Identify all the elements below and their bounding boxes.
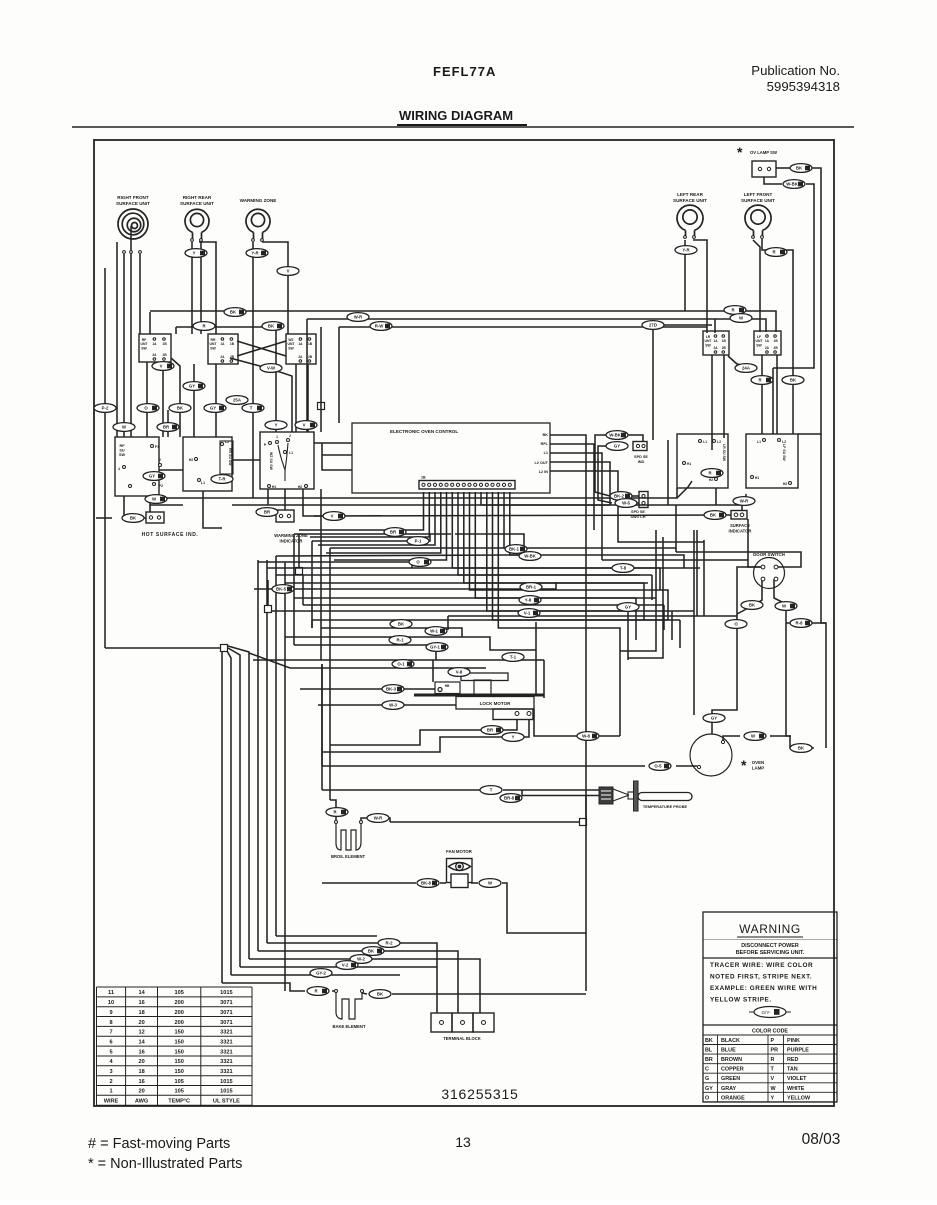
wire probe feed 2: [522, 795, 599, 797]
svg-text:*: *: [737, 144, 743, 160]
LR UNIT SW terminal 2A: [714, 351, 717, 354]
wire label Y-8 (oval): [519, 596, 541, 605]
schematic border frame: [94, 140, 834, 1106]
wire fan motor feed: [322, 882, 416, 884]
svg-text:200: 200: [175, 1020, 184, 1026]
EOC pin 8 wire: [464, 492, 644, 583]
wire label W-5 (oval): [615, 499, 637, 508]
wire spd sw lead a: [632, 495, 639, 497]
wire label V-1 (oval): [518, 609, 540, 618]
SPD SE IND terminal 1: [636, 444, 639, 447]
wire fan y548: [330, 547, 504, 549]
WZ UNIT SW terminal 1B: [308, 338, 311, 341]
wire right v4: [627, 611, 629, 660]
svg-text:16: 16: [138, 1000, 144, 1006]
svg-text:GRAY: GRAY: [721, 1086, 736, 1092]
wire fan motor out: [471, 882, 478, 884]
svg-text:OVEN: OVEN: [752, 760, 764, 765]
svg-text:8: 8: [109, 1020, 112, 1026]
svg-text:L1: L1: [289, 451, 293, 455]
wire door switch T3 diagonal: [737, 579, 762, 614]
surface unit switch RR UNIT SW: [208, 334, 238, 364]
wire RF SU SW to hot surface ind: [124, 496, 146, 518]
wire bake to right: [392, 993, 586, 995]
wire EOC L2 IN: [550, 471, 704, 542]
oven lamp terminal 1: [721, 740, 724, 743]
svg-text:W-BK: W-BK: [609, 433, 622, 438]
svg-text:3: 3: [109, 1069, 112, 1075]
tracer wire example oval G/Y: [749, 1007, 791, 1018]
wire lock motor right: [534, 709, 620, 736]
wire fan motor return: [502, 883, 586, 933]
oven lamp switch OV LAMP SW box: [752, 161, 776, 177]
wire label T-1 (oval): [502, 653, 524, 662]
wire fan y668: [249, 653, 486, 668]
svg-text:6: 6: [109, 1040, 112, 1046]
terminal block lug 1: [440, 1021, 444, 1025]
wire LR coil drop 2: [693, 240, 707, 333]
svg-text:L2: L2: [225, 440, 229, 444]
svg-text:*: *: [741, 757, 747, 773]
svg-text:W-3: W-3: [389, 703, 397, 708]
wire label Y (oval): [502, 733, 524, 742]
wire to terminal lug 3: [249, 959, 480, 1013]
svg-text:O-5: O-5: [654, 764, 662, 769]
wire lock motor return a: [330, 719, 517, 745]
wire bottom y975: [231, 974, 400, 976]
heading underline rule: [397, 124, 527, 126]
terminal block section 1: [431, 1013, 452, 1032]
svg-text:BR-8: BR-8: [504, 796, 515, 801]
color code table: [703, 1024, 837, 1026]
connector warming zone indicator: [276, 510, 294, 522]
svg-text:INDICATOR: INDICATOR: [280, 538, 303, 543]
bus drop RF: [149, 312, 151, 334]
svg-text:BK: BK: [130, 516, 137, 521]
svg-text:SURFACE UNIT: SURFACE UNIT: [673, 198, 707, 203]
connector surface indicator: [731, 511, 747, 520]
surface unit coil RR (right rear): [185, 209, 209, 239]
wire label GY-2 (oval): [310, 969, 332, 978]
svg-text:SURFACE UNIT: SURFACE UNIT: [741, 198, 775, 203]
wire right long v697: [696, 530, 698, 616]
lock motor terminal 2: [527, 712, 531, 716]
wire WZ UNIT SW to WZ SU SW a: [295, 364, 297, 432]
bus L1 upper: [150, 311, 776, 332]
svg-text:Y: Y: [512, 735, 515, 740]
svg-text:12: 12: [138, 1030, 144, 1036]
svg-text:1B: 1B: [722, 339, 727, 343]
wire fan y575: [276, 574, 640, 576]
bake element terminal 2: [361, 990, 364, 993]
svg-text:YELLOW STRIPE.: YELLOW STRIPE.: [710, 997, 772, 1004]
WZ UNIT SW terminal 2A: [299, 360, 302, 363]
EOC terminal strip: [419, 481, 515, 490]
svg-text:BK: BK: [710, 513, 717, 518]
svg-text:H1: H1: [272, 485, 276, 489]
LR UNIT SW terminal 1B: [722, 335, 725, 338]
svg-text:3071: 3071: [220, 1010, 232, 1016]
wire label V (oval): [152, 362, 174, 371]
svg-text:W-R: W-R: [740, 499, 749, 504]
wire oven lamp T1: [723, 736, 740, 740]
svg-text:T: T: [490, 788, 493, 793]
wire gauge table data: [104, 990, 240, 1104]
EOC pin 16 wire: [510, 492, 684, 568]
fan motor iris: [456, 863, 464, 871]
wire label BK (oval): [262, 322, 284, 331]
svg-text:BK-5: BK-5: [276, 587, 287, 592]
wire label O (oval): [409, 558, 431, 567]
wire label R (oval): [765, 248, 787, 257]
bus L3 upper: [339, 326, 707, 328]
wire junction: [265, 606, 272, 613]
warning title underline: [737, 936, 803, 938]
svg-text:1B: 1B: [163, 342, 168, 346]
wire bundle v x294: [293, 534, 295, 645]
wire label W-3 (oval): [382, 701, 404, 710]
wire W-R oval to surface ind: [741, 499, 743, 510]
svg-text:Y: Y: [193, 251, 196, 256]
wire right v5: [635, 598, 637, 640]
EOC pin 5 wire: [334, 492, 447, 560]
svg-text:Publication No.: Publication No.: [751, 63, 840, 78]
svg-text:RFL: RFL: [541, 442, 549, 446]
wire RR coil branch right: [199, 242, 216, 334]
LF SU SW terminal H2: [789, 482, 792, 485]
wire link door: [675, 548, 677, 552]
svg-text:18: 18: [138, 1069, 144, 1075]
wire junction: [318, 403, 325, 410]
probe connector nub: [628, 792, 634, 799]
svg-text:10: 10: [108, 1000, 114, 1006]
wire label Y (oval): [265, 421, 287, 430]
RR coil terminal 1: [191, 239, 194, 242]
svg-text:W-R: W-R: [354, 315, 363, 320]
wire RR coil drop 2: [200, 242, 202, 334]
svg-text:105: 105: [175, 1079, 184, 1085]
wire right mid v2: [667, 440, 669, 505]
selector switch WZ SU SW: [260, 432, 314, 489]
svg-text:150: 150: [175, 1059, 184, 1065]
fan motor housing: [447, 859, 473, 883]
svg-text:2B: 2B: [774, 346, 779, 350]
wire right mid v1: [652, 325, 654, 440]
WZ UNIT SW terminal 1A: [299, 338, 302, 341]
svg-text:OV LAMP SW: OV LAMP SW: [750, 150, 777, 155]
lock motor box: [456, 697, 534, 710]
svg-text:2A: 2A: [765, 346, 770, 350]
svg-text:L2: L2: [782, 440, 786, 444]
svg-text:BK: BK: [368, 949, 375, 954]
svg-text:GY: GY: [210, 406, 216, 411]
svg-text:105: 105: [175, 990, 184, 996]
wire label Y (oval): [185, 249, 207, 258]
selector switch LF SU SW: [746, 434, 798, 488]
svg-text:LR SU SW: LR SU SW: [722, 444, 726, 462]
wire OV LAMP SW to label: [776, 167, 790, 169]
svg-text:W-5: W-5: [622, 501, 630, 506]
LF UNIT SW terminal 2B: [774, 351, 777, 354]
RR SU SW terminal L1: [198, 479, 201, 482]
svg-text:2A: 2A: [220, 355, 225, 359]
svg-text:BLACK: BLACK: [721, 1038, 740, 1044]
wire bottom bake feed: [222, 983, 305, 991]
wire label BR-8 (oval): [500, 794, 522, 803]
svg-text:1015: 1015: [220, 1089, 232, 1095]
door switch body: [754, 558, 785, 589]
wire bundle v x267: [266, 560, 268, 943]
wire to door switch T1 feed: [602, 560, 762, 567]
wire LR UNIT to LR SU a: [711, 355, 713, 450]
svg-text:3071: 3071: [220, 1020, 232, 1026]
wire fan y637b: [462, 637, 536, 650]
wire fan y589: [254, 582, 556, 589]
wire label V-2 (oval): [336, 961, 358, 970]
svg-text:SW: SW: [119, 453, 126, 457]
svg-text:BK: BK: [398, 622, 405, 627]
wire fan y541: [312, 534, 430, 541]
svg-text:4: 4: [118, 467, 120, 471]
connector SPD SE SWITCH: [639, 492, 648, 508]
wire RR coil drop 1: [191, 242, 193, 334]
WZ SU SW terminal 2: [287, 439, 290, 442]
bus left mid: [176, 327, 276, 432]
svg-text:3321: 3321: [220, 1069, 232, 1075]
wire bundle v x321: [320, 489, 322, 660]
EOC pin 15 wire: [504, 492, 676, 548]
svg-text:Y-R: Y-R: [682, 248, 690, 253]
RR UNIT SW terminal 2B: [230, 360, 233, 363]
hot surface ind terminal 2: [157, 516, 160, 519]
svg-text:L1: L1: [757, 440, 761, 444]
wire lock motor return b: [322, 719, 529, 752]
terminal block lug 2: [461, 1021, 465, 1025]
svg-text:3321: 3321: [220, 1040, 232, 1046]
svg-text:WIRING DIAGRAM: WIRING DIAGRAM: [399, 108, 513, 123]
wire label T-R (oval): [211, 475, 233, 484]
wire fan y598: [294, 597, 656, 599]
RR UNIT SW terminal 2A: [221, 360, 224, 363]
svg-text:14: 14: [138, 990, 145, 996]
bus L2 upper: [307, 319, 766, 332]
wire label R-1 (oval): [389, 636, 411, 645]
wire WZ SU SW to WZ ind: [284, 489, 286, 510]
svg-text:H2: H2: [189, 458, 193, 462]
wire label GY (oval): [183, 382, 205, 391]
LF coil terminal 2: [761, 236, 764, 239]
RR SU SW inner contact block: [220, 441, 233, 474]
svg-text:V-W: V-W: [267, 366, 276, 371]
svg-text:VIOLET: VIOLET: [787, 1076, 807, 1082]
LR SU SW terminal L2: [713, 440, 716, 443]
svg-text:SW: SW: [141, 346, 147, 350]
svg-text:T-1: T-1: [510, 655, 517, 660]
wire junction vertical: [320, 327, 322, 432]
LR UNIT SW terminal 1A: [714, 335, 717, 338]
svg-text:LAMP: LAMP: [752, 766, 765, 771]
wire RF coil drop 1: [116, 242, 118, 437]
EOC pin 12 wire: [487, 492, 628, 611]
svg-text:L2: L2: [717, 440, 721, 444]
wire label V (oval): [323, 512, 345, 521]
wire LR box to 24A oval: [728, 356, 750, 367]
wire right v680 ext: [679, 620, 681, 648]
warning divider: [703, 957, 837, 959]
svg-text:2: 2: [159, 458, 161, 462]
wire fan y605: [303, 604, 664, 606]
wire junction: [221, 645, 228, 652]
svg-text:SW: SW: [756, 343, 762, 347]
svg-text:1015: 1015: [220, 990, 232, 996]
lock motor terminal 1: [515, 712, 519, 716]
wire right v3: [619, 648, 621, 736]
wire fan y637: [285, 636, 462, 638]
svg-text:BK-1: BK-1: [509, 547, 520, 552]
svg-text:3321: 3321: [220, 1049, 232, 1055]
svg-text:RF: RF: [119, 444, 125, 448]
wire label R (oval): [193, 322, 215, 331]
wire lamp vertical up: [693, 530, 695, 715]
wire fan y534: [294, 533, 451, 535]
svg-text:GREEN: GREEN: [721, 1076, 740, 1082]
terminal block section 3: [473, 1013, 494, 1032]
wire door switch T2 up: [676, 552, 801, 567]
wire LF UNIT to LF SU a: [761, 355, 763, 434]
svg-text:2A: 2A: [298, 355, 303, 359]
wire bundle v x330 to broil: [329, 548, 331, 800]
wire bundle v x249: [228, 646, 249, 959]
wire label R (oval): [307, 987, 329, 996]
svg-text:AWG: AWG: [135, 1099, 148, 1105]
svg-text:BK-2: BK-2: [614, 494, 625, 499]
wire label BK-8 (oval): [417, 879, 439, 888]
wire label BK (oval): [782, 376, 804, 385]
selector switch LR SU SW: [677, 434, 728, 488]
svg-text:GY-1: GY-1: [430, 645, 440, 650]
svg-text:NOTED FIRST, STRIPE NEXT.: NOTED FIRST, STRIPE NEXT.: [710, 974, 812, 981]
wire bus drop mid: [306, 319, 308, 432]
svg-text:BAKE ELEMENT: BAKE ELEMENT: [332, 1024, 365, 1029]
wire RF coil drop 4: [139, 254, 141, 334]
wire label GY (oval): [143, 472, 165, 481]
svg-text:H1: H1: [755, 476, 759, 480]
wire LR UNIT to LR SU b: [723, 355, 725, 438]
wire label 27D (oval): [642, 321, 664, 330]
svg-text:LOCK MOTOR: LOCK MOTOR: [480, 701, 511, 706]
svg-text:SW: SW: [288, 346, 294, 350]
wire long door switch bus: [448, 615, 737, 617]
wire junction: [580, 819, 587, 826]
WZ SU SW contact curves: [278, 443, 288, 481]
WZ SU SW terminal L1: [284, 451, 287, 454]
warming zone ind terminal 1: [279, 514, 282, 517]
SPD SE IND terminal 2: [642, 444, 645, 447]
svg-text:SURFACE UNIT: SURFACE UNIT: [116, 201, 150, 206]
lock motor connector: [493, 709, 533, 720]
wire door branch right loop: [786, 623, 826, 748]
svg-text:PURPLE: PURPLE: [787, 1048, 809, 1054]
wire broil feed jog: [330, 800, 336, 820]
wire to bus3: [150, 504, 183, 506]
svg-text:V: V: [287, 269, 290, 274]
wire oven lamp long left: [322, 765, 645, 767]
RF coil terminal 1: [123, 251, 126, 254]
wire LF UNIT to LF SU b: [776, 355, 778, 434]
RF UNIT SW terminal 1B: [163, 338, 166, 341]
wire label T-8 (oval): [612, 564, 634, 573]
wire label BK-3 (oval): [382, 685, 404, 694]
svg-text:LEFT FRONT: LEFT FRONT: [744, 192, 773, 197]
RF SU SW terminal P1: [151, 445, 154, 448]
svg-text:27D: 27D: [649, 323, 657, 328]
wire link660: [536, 659, 544, 661]
svg-text:WZ SU SW: WZ SU SW: [269, 452, 273, 471]
svg-text:SURFACE UNIT: SURFACE UNIT: [180, 201, 214, 206]
svg-text:3321: 3321: [220, 1059, 232, 1065]
wire lamp to right: [770, 736, 790, 748]
svg-text:BR-1: BR-1: [526, 585, 537, 590]
wire LF coil drop left: [753, 240, 760, 332]
surface unit switch LR UNIT SW: [703, 331, 729, 355]
RR coil terminal 2: [200, 239, 203, 242]
wire WZ to EOC 3: [322, 443, 352, 470]
svg-text:W-1: W-1: [430, 629, 438, 634]
surface unit coil RF (right front): [118, 209, 148, 239]
svg-text:W-R: W-R: [374, 816, 383, 821]
svg-text:2: 2: [289, 434, 291, 438]
wire label BK (oval): [790, 744, 812, 753]
wire WZ coil drop 1: [252, 242, 254, 498]
WZ SU SW terminal 1: [276, 441, 279, 444]
RF SU SW terminal 2: [159, 464, 162, 467]
wire right v672 ext: [671, 611, 673, 640]
wire RF-RR selector link: [159, 469, 183, 471]
EOC pin 3 wire: [318, 492, 435, 545]
wire label W (oval): [744, 732, 766, 741]
wire bundle to lamp: [321, 664, 323, 766]
wire label W-R (oval): [347, 313, 369, 322]
connector hot surface indicator: [146, 512, 164, 523]
wire left long to junction: [105, 647, 220, 649]
wire broil T2: [361, 818, 390, 822]
svg-text:2B: 2B: [308, 355, 313, 359]
wire label Y-R (oval): [246, 249, 268, 258]
svg-text:150: 150: [175, 1040, 184, 1046]
wire label W (oval): [479, 879, 501, 888]
wire RR-WZ selector link: [232, 459, 260, 461]
probe mounting bracket: [634, 781, 639, 811]
wire RF SU SW stub: [167, 410, 169, 437]
wire door switch T4 down to lamp: [774, 579, 791, 736]
svg-text:08/03: 08/03: [802, 1131, 841, 1148]
wire label V-W (oval): [260, 364, 282, 373]
wire label W (oval): [775, 602, 797, 611]
svg-text:T: T: [250, 406, 253, 411]
svg-text:GY: GY: [189, 384, 195, 389]
wire RR SU SW L1 down: [203, 491, 222, 528]
RR SU SW terminal L2: [221, 443, 224, 446]
svg-text:SWITCH: SWITCH: [631, 515, 646, 519]
svg-text:INDICATOR: INDICATOR: [729, 528, 752, 533]
door switch terminal 1: [761, 565, 765, 569]
wire broil to junction: [390, 821, 580, 823]
broil element terminal 1: [335, 821, 338, 824]
lock motor cam pedestal: [474, 680, 491, 695]
wire bundle v x299 top: [298, 534, 300, 567]
wire label 25A (oval): [226, 396, 248, 405]
svg-text:W-2: W-2: [357, 957, 365, 962]
